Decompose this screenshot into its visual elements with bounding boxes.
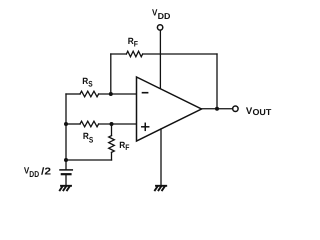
wire op-amp negative supply to ground <box>160 129 162 185</box>
wire feedback left vertical <box>110 54 112 94</box>
resistor RF (feedback) <box>126 51 142 57</box>
label RS (noninverting resistor) <box>83 131 94 144</box>
wire feedback top horizontal (left segment) <box>111 53 127 55</box>
op-amp noninverting pin mark <box>142 123 149 130</box>
wire capacitor bottom stem <box>65 175 67 185</box>
svg-text:F: F <box>125 143 129 152</box>
wire VDD stem to op-amp top <box>159 31 161 90</box>
wire noninverting input row (left segment) <box>66 123 80 125</box>
label RS (inverting resistor) <box>82 76 93 89</box>
svg-text:DD: DD <box>29 169 39 179</box>
capacitor C (VDD/2 bypass) <box>60 170 72 174</box>
op-amp inverting pin mark <box>143 92 148 94</box>
wire output <box>202 108 233 110</box>
wire left rail vertical <box>65 94 67 160</box>
svg-text:V: V <box>152 8 157 18</box>
wire capacitor top stem <box>65 160 67 169</box>
wire RF bottom stub <box>111 152 113 160</box>
ground (op-amp negative supply) <box>155 186 166 191</box>
svg-text:S: S <box>88 80 93 89</box>
svg-text:DD: DD <box>158 11 171 21</box>
junction VDD/2 node <box>64 158 68 162</box>
resistor RS (noninverting input) <box>80 121 99 127</box>
junction output / feedback <box>215 107 219 111</box>
wire feedback top horizontal (right segment) <box>143 53 217 55</box>
wire bottom horizontal to VDD/2 node <box>66 159 112 161</box>
resistor RF (noninverting to VDD/2) <box>109 136 115 153</box>
wire RF top stub <box>111 124 113 136</box>
ground (below capacitor) <box>60 186 71 191</box>
wire inverting input row (right segment) <box>99 93 137 95</box>
VOUT terminal <box>233 106 238 111</box>
label RF (feedback resistor) <box>128 36 138 48</box>
label VOUT (output) <box>246 106 272 117</box>
op-amp U1 <box>137 77 202 141</box>
junction noninverting row / RF <box>110 122 114 126</box>
label RF (vertical resistor) <box>119 140 129 152</box>
wire inverting input row (left segment) <box>66 93 80 95</box>
svg-text:F: F <box>134 39 138 48</box>
label VDD/2 (bias node) <box>24 165 52 179</box>
junction inverting input / RF feedback <box>109 92 113 96</box>
wire feedback right vertical to output <box>216 54 218 109</box>
wire noninverting input row (right segment) <box>99 123 137 125</box>
svg-text:OUT: OUT <box>253 107 273 117</box>
label VDD (top supply) <box>152 8 170 21</box>
junction left rail / noninverting row <box>64 122 68 126</box>
resistor RS (inverting input) <box>80 91 99 97</box>
svg-text:S: S <box>89 135 94 144</box>
VDD terminal <box>157 25 162 30</box>
svg-text:/2: /2 <box>41 166 52 177</box>
